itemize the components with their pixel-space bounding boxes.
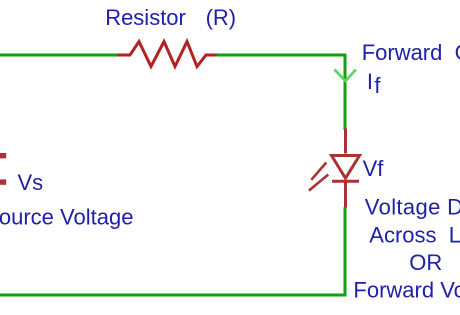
svg-text:Source Voltage: Source Voltage [0, 205, 133, 230]
svg-text:f: f [374, 73, 381, 98]
svg-text:Resistor: Resistor [105, 5, 186, 30]
svg-text:Forward Current: Forward Current [362, 40, 460, 65]
svg-text:Vf: Vf [363, 156, 385, 181]
svg-text:Across LED: Across LED [369, 222, 460, 247]
svg-text:Forward Voltage: Forward Voltage [353, 277, 460, 302]
svg-text:I: I [367, 69, 373, 94]
svg-text:OR: OR [409, 250, 442, 275]
svg-text:Voltage Drop: Voltage Drop [365, 195, 460, 220]
svg-text:(R): (R) [206, 5, 237, 30]
svg-text:Vs: Vs [18, 170, 44, 195]
